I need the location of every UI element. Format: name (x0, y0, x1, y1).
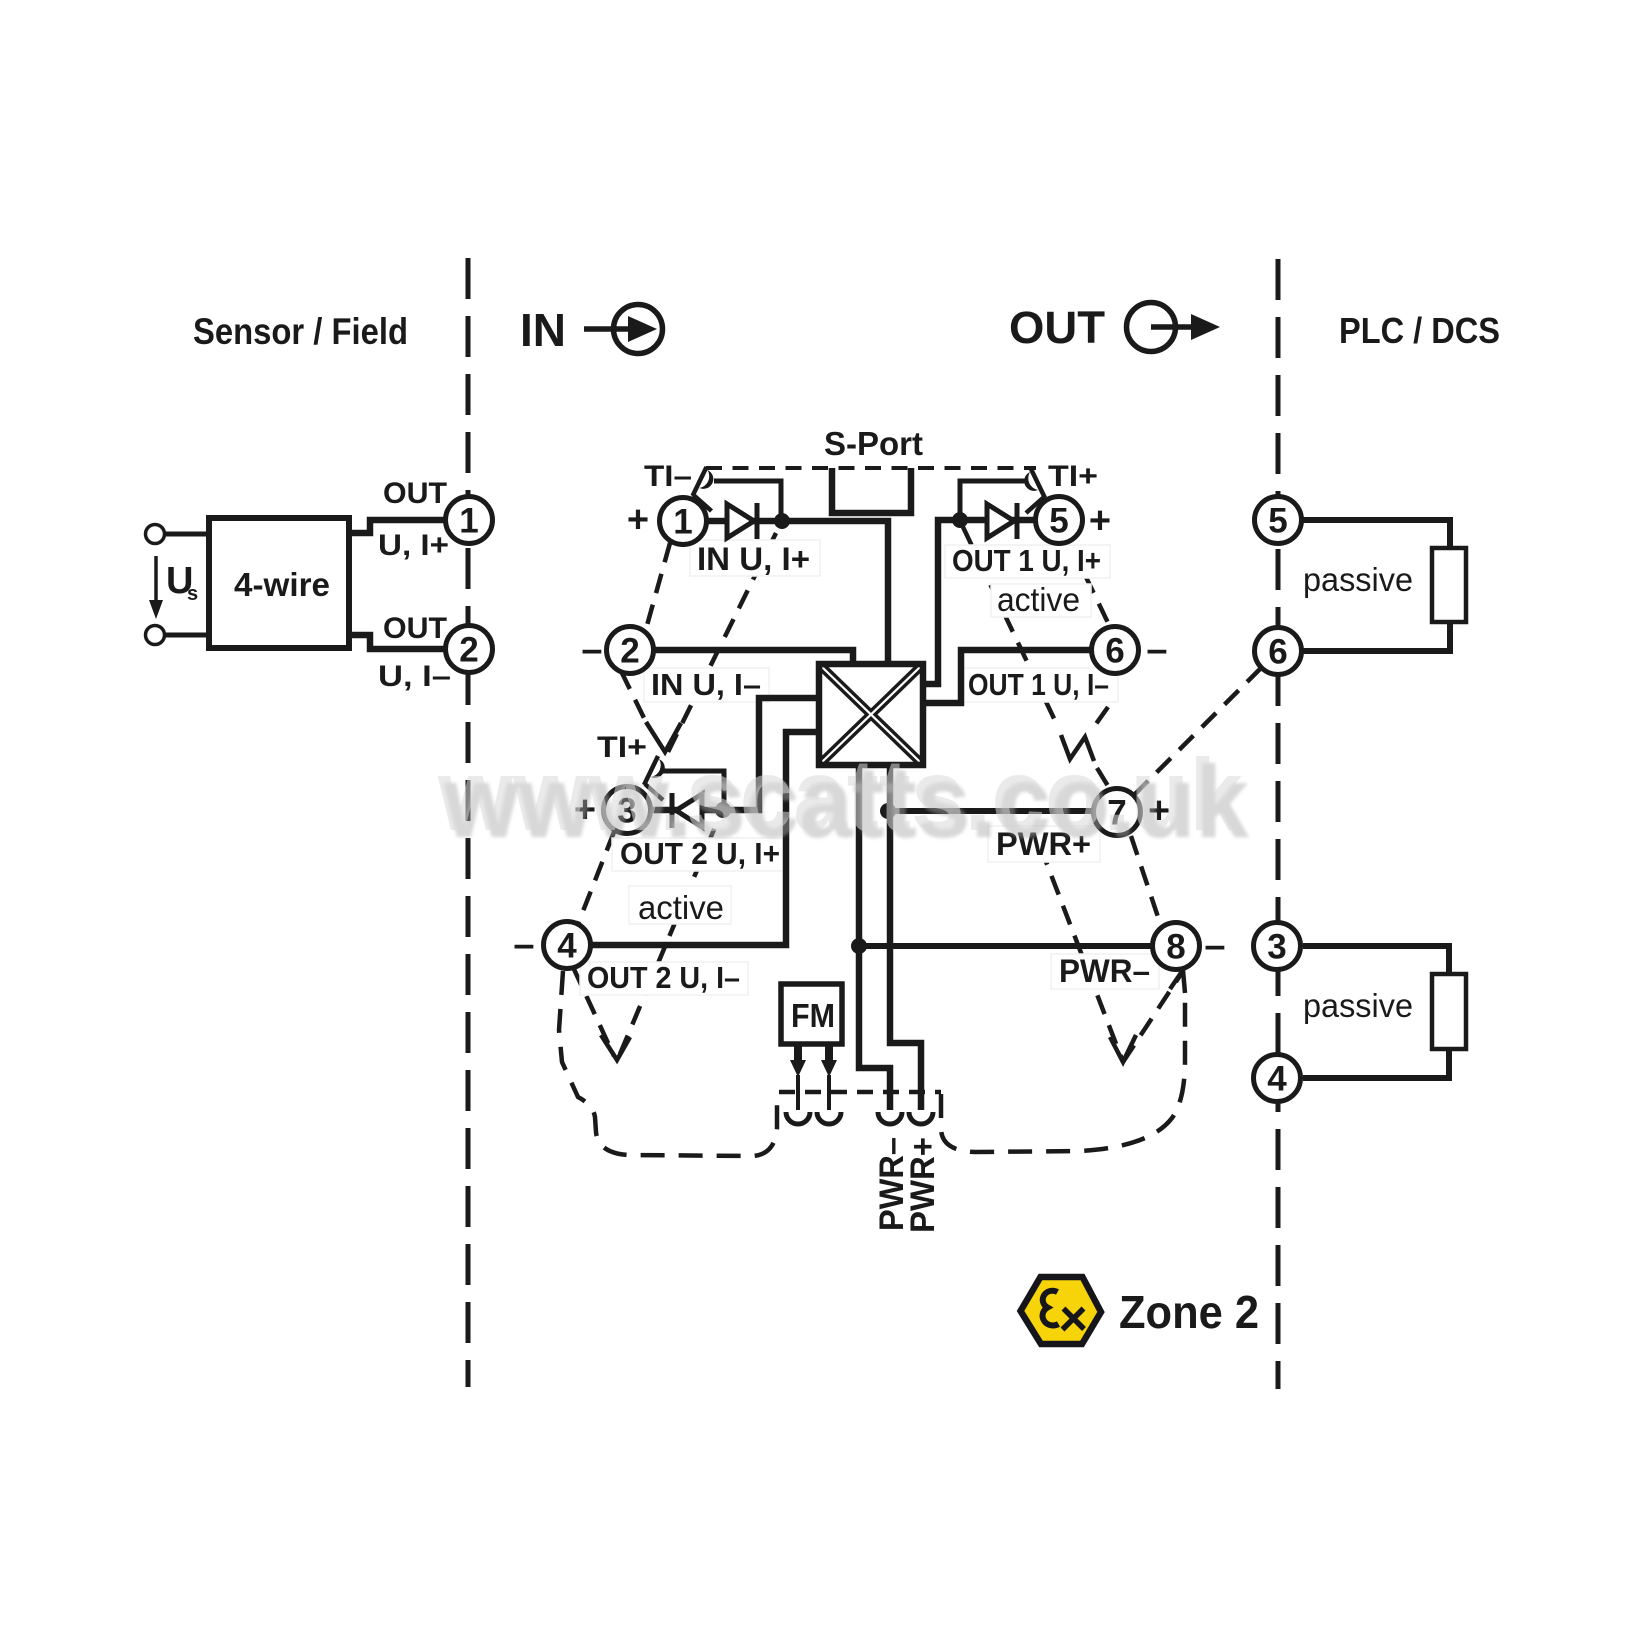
svg-text:OUT 1 U, I–: OUT 1 U, I– (968, 667, 1109, 702)
svg-text:5: 5 (1049, 502, 1068, 541)
svg-text:+: + (1089, 500, 1111, 542)
svg-text:passive: passive (1303, 987, 1413, 1024)
svg-text:+: + (627, 499, 649, 541)
svg-text:8: 8 (1166, 928, 1185, 967)
svg-text:www.scatts.co.uk: www.scatts.co.uk (437, 738, 1243, 852)
svg-text:Sensor / Field: Sensor / Field (193, 311, 408, 352)
svg-text:1: 1 (673, 503, 692, 542)
svg-text:active: active (638, 889, 724, 926)
svg-text:OUT: OUT (383, 612, 447, 645)
svg-text:6: 6 (1105, 632, 1124, 671)
svg-text:4-wire: 4-wire (234, 566, 330, 603)
svg-text:5: 5 (1268, 502, 1287, 541)
svg-text:–: – (513, 924, 534, 966)
svg-text:4: 4 (1267, 1060, 1287, 1099)
svg-text:OUT 1 U, I+: OUT 1 U, I+ (952, 543, 1101, 578)
svg-text:U, I+: U, I+ (378, 529, 449, 562)
svg-text:passive: passive (1303, 561, 1413, 598)
svg-text:IN: IN (520, 304, 566, 356)
svg-text:FM: FM (791, 997, 835, 1034)
svg-text:TI+: TI+ (1048, 460, 1098, 493)
svg-text:–: – (1146, 629, 1167, 671)
svg-text:IN U, I–: IN U, I– (651, 667, 761, 702)
svg-text:OUT: OUT (1009, 302, 1105, 353)
svg-text:2: 2 (620, 632, 639, 671)
svg-text:PLC / DCS: PLC / DCS (1339, 310, 1500, 351)
svg-text:IN U, I+: IN U, I+ (697, 541, 810, 577)
svg-text:Zone 2: Zone 2 (1119, 1286, 1259, 1338)
svg-text:OUT 2 U, I–: OUT 2 U, I– (587, 960, 740, 995)
svg-text:TI–: TI– (644, 460, 692, 493)
svg-text:–: – (1204, 925, 1225, 967)
svg-text:–: – (581, 629, 602, 671)
svg-text:3: 3 (1267, 928, 1286, 967)
svg-text:6: 6 (1268, 633, 1287, 672)
svg-text:S-Port: S-Port (824, 425, 923, 462)
svg-text:OUT: OUT (383, 477, 447, 510)
svg-text:PWR+: PWR+ (904, 1137, 942, 1233)
svg-text:4: 4 (557, 927, 577, 966)
svg-text:2: 2 (459, 631, 478, 670)
svg-text:1: 1 (459, 502, 478, 541)
svg-text:active: active (997, 581, 1080, 618)
svg-text:s: s (187, 583, 198, 605)
svg-text:PWR–: PWR– (1059, 953, 1150, 989)
svg-text:U, I–: U, I– (378, 660, 451, 693)
